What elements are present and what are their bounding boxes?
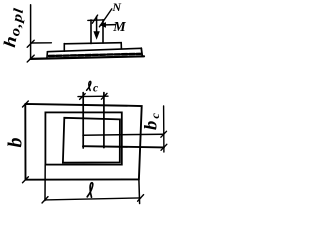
slab left edge — [46, 52, 49, 59]
dimension line h_o,pl (vertical, elevation left) — [30, 5, 32, 59]
tick top of b_c — [161, 131, 167, 137]
break slash on column — [92, 15, 97, 23]
tick left of l — [42, 197, 48, 203]
moment M arrowhead — [100, 23, 105, 28]
column section bottom edge extended to b_c dimension — [83, 146, 164, 147]
extension line left of l (second step edge extended) — [44, 165, 46, 201]
moment M arrow line — [101, 24, 115, 26]
tick bottom of b_c — [161, 144, 167, 150]
plan third step rectangle — [63, 118, 120, 163]
tick left of l_c — [80, 94, 86, 100]
column top break line — [88, 19, 102, 22]
slab hatch row 1 — [49, 54, 141, 56]
force N arrow shaft — [96, 16, 98, 33]
force N arrowhead — [94, 32, 99, 39]
column right edge (elevation) — [102, 20, 104, 43]
plan outer footing rectangle — [25, 104, 141, 180]
svg-text:ho,pl: ho,pl — [0, 6, 27, 49]
dimension line l_c (top of plan) — [78, 95, 108, 97]
tick top of b (on outer rect top-left corner) — [23, 101, 29, 107]
plan second step rectangle — [45, 112, 121, 164]
extension line right of l (outer edge extended) — [138, 179, 141, 203]
tick right of l_c — [101, 93, 107, 99]
label l — [87, 183, 93, 197]
svg-text:N: N — [111, 0, 122, 14]
slab top edge — [47, 48, 141, 51]
leader line to N label — [99, 9, 111, 27]
svg-text:c: c — [93, 83, 98, 95]
pedestal left edge — [63, 44, 65, 52]
svg-text:bc: bc — [141, 111, 163, 130]
extension line top of slab — [31, 42, 52, 44]
column left edge (elevation) — [90, 20, 92, 44]
label l_c — [87, 81, 91, 90]
pedestal top edge — [64, 43, 121, 44]
tick bottom of h_o,pl — [27, 55, 34, 62]
pedestal right edge — [120, 43, 122, 49]
dimension line l (bottom of plan) — [45, 198, 141, 200]
tick bottom of b (on outer rect bottom-left corner) — [23, 177, 29, 183]
svg-text:b: b — [5, 138, 27, 148]
column section top edge extended to b_c dimension — [83, 134, 164, 135]
dimension line b_c (right of plan) — [163, 106, 165, 152]
tick right of l — [138, 195, 144, 202]
column section left edge extended (plan) — [82, 93, 84, 148]
column section right edge extended (plan) — [103, 93, 105, 148]
slab bottom line (with left extension to dimension) — [31, 56, 144, 59]
svg-text:M: M — [112, 20, 126, 35]
tick top of h_o,pl — [27, 40, 34, 47]
slab right edge — [141, 48, 142, 56]
